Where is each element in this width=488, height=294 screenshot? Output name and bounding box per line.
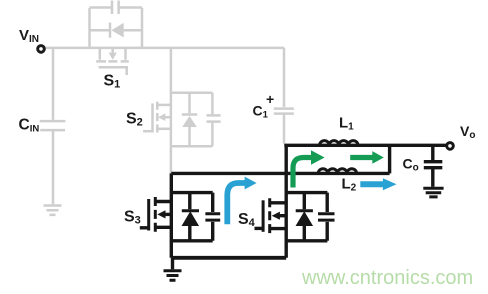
transistor S1 body stub <box>111 48 114 53</box>
gray inactive half-bridge section <box>40 1 294 215</box>
diode of S1 body: triangle <box>111 23 123 38</box>
transistor S4 source stub <box>270 227 287 230</box>
transistor S2 ladder box top <box>171 92 213 95</box>
transistor S3 drain stub <box>155 200 171 203</box>
transistor S2 drain stub <box>157 104 171 107</box>
node VIN circle <box>38 46 45 53</box>
green arrow (into L1 path) <box>293 150 325 187</box>
black active section <box>140 141 454 281</box>
transistor S3 ladder box top <box>171 191 212 194</box>
transistor S3 gate lead <box>140 226 149 229</box>
transistor S1 body arrow (down) <box>109 53 117 60</box>
blue arrow (through L2) <box>360 178 396 190</box>
transistor S3 source stub <box>155 226 171 229</box>
transistor S1 drain stub <box>99 48 102 60</box>
transistor S2 body stub <box>165 116 171 119</box>
capacitor of S3 snubber: branch wires <box>211 193 214 241</box>
diode of S1 body: cathode bar <box>109 23 112 38</box>
diode of S1 body: wires <box>90 29 143 32</box>
wire: output top rail <box>284 144 446 147</box>
transistor S4 gate lead <box>255 227 264 230</box>
transistor S3 ladder box bottom <box>171 239 212 242</box>
transistor S2 source stub <box>157 128 171 131</box>
blue arrow (into L2 path) <box>227 177 256 225</box>
ground (output side) <box>423 188 443 197</box>
diode of S3 body: cathode bar <box>182 209 199 212</box>
capacitor Co branch wire <box>431 145 434 160</box>
wire: CIN to ground <box>52 130 55 204</box>
transistor S2 gate lead <box>143 130 152 133</box>
diode of S2 body: triangle (up) <box>182 116 197 127</box>
inductor L2 <box>318 169 356 174</box>
green arrow (through L1) <box>350 151 384 164</box>
transistor S4 drain stub <box>270 201 287 204</box>
capacitor C1 plates <box>274 109 294 114</box>
inductor L1 <box>320 141 358 146</box>
transistor S4 gate bar <box>262 200 265 232</box>
transistor S4 ladder box bottom <box>286 239 327 242</box>
transistor S3 body stub <box>165 213 172 216</box>
wire: L2 rail <box>171 172 389 175</box>
capacitor of S1 snubber: wires <box>90 6 143 9</box>
transistor S3 body arrow (left) <box>157 210 165 218</box>
transistor S2 gate bar <box>151 103 154 132</box>
ground (main, bottom) <box>171 258 174 270</box>
transistor S4 ladder box top <box>286 191 327 194</box>
diode of S2 body: branch wires <box>188 93 191 147</box>
transistor S3 gate bar <box>147 199 150 231</box>
svg-text:www.cntronics.com: www.cntronics.com <box>301 267 473 289</box>
wire: top input rail <box>45 47 285 50</box>
transistor S2 body arrow (left) <box>158 113 165 121</box>
transistor S4 body stub <box>279 214 286 217</box>
node Vo circle <box>447 143 454 150</box>
capacitor C1 top wire <box>283 48 286 107</box>
capacitor C1 bottom wire <box>283 114 286 144</box>
transistor S1 ladder right post <box>141 8 144 48</box>
transistor S2 ladder box bottom <box>171 145 213 148</box>
capacitor of S3 snubber: plates <box>205 214 220 220</box>
capacitor of S4 snubber: plates <box>318 214 335 220</box>
transistor S1 gate lead <box>125 67 128 75</box>
capacitor Co plates <box>424 162 443 168</box>
diode of S3 body: branch wires <box>188 193 191 241</box>
capacitor of S2 snubber: branch wires <box>211 93 214 147</box>
diode of S2 body: cathode bar <box>182 113 197 116</box>
transistor S4 channel segments <box>268 198 271 233</box>
transistor S4 body arrow (left) <box>272 212 280 220</box>
transistor S4 spine <box>285 145 288 257</box>
capacitor of S1 snubber: plates <box>112 1 119 15</box>
diode of S3 body: triangle (up) <box>183 212 198 225</box>
ground (input side, gray) <box>44 206 62 215</box>
transistor S3 spine <box>170 173 173 257</box>
diode of S4 body: triangle (up) <box>297 212 312 225</box>
capacitor of S2 snubber: plates <box>207 115 221 121</box>
transistor S3 channel segments <box>154 197 157 232</box>
diode of S4 body: branch wires <box>303 193 306 241</box>
transistor S2 spine (drain-source line) <box>170 48 173 173</box>
transistor S1 source stub <box>124 48 127 60</box>
capacitor of S4 snubber: branch wires <box>326 193 329 241</box>
diode of S4 body: cathode bar <box>296 209 313 212</box>
wire: bottom rail <box>171 256 286 260</box>
wire: loop right edge <box>388 145 391 173</box>
transistor S2 channel segments <box>156 102 159 133</box>
wire: CIN branch vertical <box>52 48 55 120</box>
svg-text:+: + <box>266 91 274 107</box>
transistor S1 gate bar <box>99 66 128 69</box>
transistor S1 channel segments <box>96 60 129 63</box>
capacitor Co bottom wire <box>431 168 434 187</box>
transistor S1 ladder left post <box>88 8 91 48</box>
capacitor CIN plates <box>40 121 66 130</box>
